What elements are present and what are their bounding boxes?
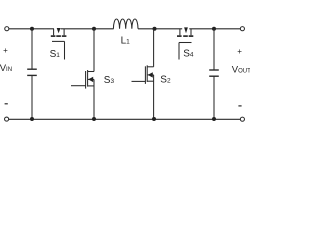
- svg-text:L1: L1: [121, 36, 131, 47]
- node S2 source tap: [152, 117, 156, 121]
- svg-text:S3: S3: [104, 75, 115, 86]
- transistor S1 (high-side buck switch): [51, 28, 67, 60]
- capacitor C_in: [27, 29, 37, 119]
- node output cap tap top: [212, 27, 216, 31]
- node S3 drain tap: [92, 27, 96, 31]
- input terminal bottom-left: [5, 117, 9, 121]
- output terminal top-right: [240, 27, 244, 31]
- svg-text:+: +: [3, 46, 8, 55]
- node S3 source tap: [92, 117, 96, 121]
- wire top rail L1 to S4: [138, 28, 182, 30]
- svg-text:S1: S1: [50, 49, 61, 60]
- svg-text:S4: S4: [183, 48, 194, 59]
- label minus input: [5, 103, 8, 105]
- output terminal bottom-right: [240, 117, 244, 121]
- wire top rail left segment: [9, 28, 54, 30]
- transistor S4 (high-side boost switch): [177, 27, 193, 59]
- svg-text:+: +: [237, 47, 242, 56]
- input terminal top-left: [5, 27, 9, 31]
- wire top rail S1 to L1: [61, 28, 114, 30]
- transistor S2 (low-side boost switch): [132, 29, 154, 119]
- wire top rail right segment: [189, 28, 240, 30]
- transistor S3 (low-side buck switch): [71, 29, 94, 119]
- node S2 drain tap: [153, 27, 157, 31]
- label minus output: [238, 105, 241, 107]
- capacitor C_out: [209, 29, 219, 119]
- svg-text:VIN: VIN: [0, 63, 12, 74]
- node output cap tap bottom: [212, 117, 216, 121]
- node input cap tap bottom: [30, 117, 34, 121]
- wire bottom rail: [9, 118, 241, 120]
- node input cap tap top: [30, 27, 34, 31]
- svg-text:VOUT: VOUT: [232, 65, 250, 76]
- inductor L1: [113, 19, 138, 29]
- svg-text:S2: S2: [160, 74, 171, 85]
